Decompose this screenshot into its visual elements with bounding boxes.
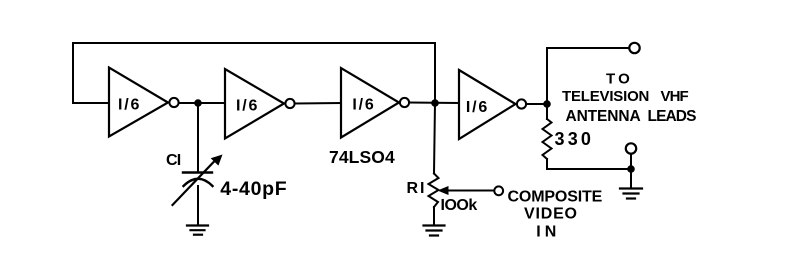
ground (right) (620, 189, 642, 199)
wire U1b output to U1c input (295, 102, 341, 105)
op-amp U1a inverter 1/6 (109, 68, 179, 137)
wire U1a output to U1b input (179, 102, 225, 104)
op-amp U1c inverter 1/6 (341, 68, 409, 138)
wire node D to ground (630, 169, 632, 188)
svg-text:RI: RI (407, 180, 427, 197)
wire node C to antenna terminal 1 (547, 48, 629, 104)
svg-text:COMPOSITE: COMPOSITE (508, 189, 603, 206)
svg-text:I/6: I/6 (236, 97, 259, 114)
resistor R2 330 (543, 119, 552, 159)
op-amp U1b inverter 1/6 (225, 69, 295, 139)
node B junction dot (feedback tap) (431, 99, 439, 107)
capacitor C1 (variable, 4-40pF) (173, 155, 223, 206)
wire input to U1a (73, 102, 109, 104)
op-amp U1d inverter 1/6 (459, 70, 526, 139)
svg-text:IN: IN (536, 224, 560, 241)
label COMPOSITE VIDEO IN (508, 189, 603, 241)
terminal antenna 2 (626, 143, 636, 153)
wire U1c output to U1d input (409, 102, 459, 105)
wire feedback loop (top) (73, 43, 435, 103)
node C junction dot (543, 100, 551, 108)
svg-text:74LSO4: 74LSO4 (329, 147, 395, 167)
svg-text:I/6: I/6 (352, 97, 375, 114)
wire node A to C1 (197, 103, 199, 172)
wire C1 to ground (197, 186, 199, 225)
ground (under C1) (187, 226, 208, 235)
wire U1d output to node C (526, 103, 547, 105)
label TO TELEVISION VHF ANTENNA LEADS (562, 71, 696, 126)
terminal composite video in (494, 186, 503, 195)
wire node C to R2 top (546, 104, 548, 119)
svg-text:CI: CI (166, 152, 181, 169)
svg-text:ANTENNA: ANTENNA (566, 108, 641, 125)
svg-text:I/6: I/6 (466, 99, 489, 116)
wire node B to R1 (434, 103, 435, 174)
svg-text:VHF: VHF (661, 88, 689, 105)
ground (under R1) (424, 226, 445, 236)
svg-text:TO: TO (606, 71, 633, 88)
wire R2 bottom to node D (547, 159, 631, 169)
svg-text:VIDEO: VIDEO (524, 206, 578, 223)
node D junction dot (627, 165, 635, 173)
svg-text:330: 330 (555, 129, 595, 149)
wire node D to antenna terminal 2 (630, 154, 632, 169)
node A junction dot (194, 99, 202, 107)
svg-text:LEADS: LEADS (648, 108, 697, 125)
wire R1 bottom to ground (433, 207, 435, 225)
svg-text:I/6: I/6 (118, 97, 141, 114)
svg-text:IOOk: IOOk (441, 197, 478, 214)
terminal antenna 1 (629, 43, 639, 53)
svg-text:4-40pF: 4-40pF (220, 178, 287, 200)
svg-text:TELEVISION: TELEVISION (562, 88, 649, 105)
resistor R1 100k potentiometer (429, 174, 495, 208)
